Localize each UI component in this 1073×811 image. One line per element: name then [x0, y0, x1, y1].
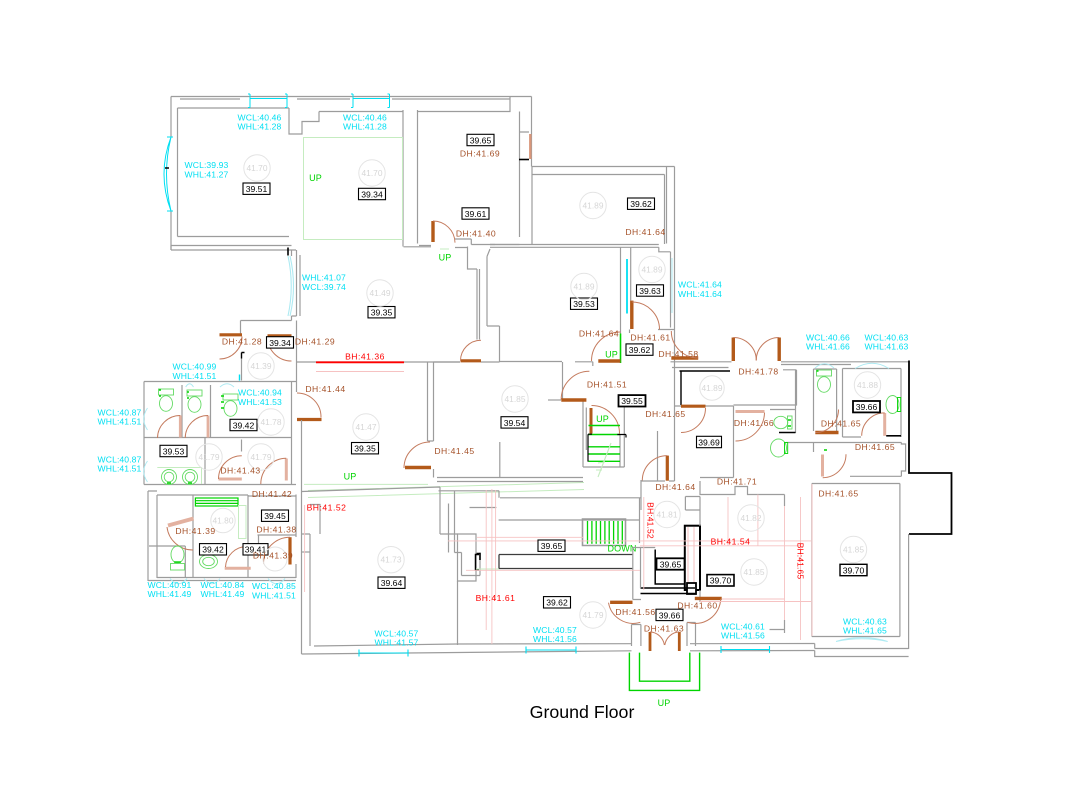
black tick below window 39.65 — [519, 159, 529, 161]
toilet WC1 — [159, 389, 174, 411]
wall room 39.70r — [812, 484, 900, 637]
circle 41.82 — [738, 505, 764, 531]
wall bottom inner — [314, 644, 815, 647]
wall room 39.62 top inner — [532, 174, 665, 176]
room box 39.35 top — [368, 307, 395, 318]
window arcs below 41.80 block — [170, 579, 285, 584]
svg-text:39.42: 39.42 — [233, 420, 255, 430]
stair down tread 6 — [608, 521, 610, 544]
black bracket duct — [476, 555, 480, 571]
door arc DH:41.39 upper — [167, 527, 193, 550]
door leaf DH:41.42 — [285, 459, 288, 481]
black double lines lobby — [641, 588, 696, 594]
room box 39.70 mid — [707, 575, 734, 586]
door arc DH:41.78 left — [733, 338, 756, 361]
room box 39.62 top — [628, 198, 655, 209]
svg-text:UP: UP — [344, 472, 357, 482]
circle 41.89 a — [580, 192, 606, 218]
stair down tread 8 — [617, 521, 619, 544]
svg-text:39.55: 39.55 — [621, 396, 643, 406]
wall room 41.88 — [843, 369, 902, 438]
wall 39.64 step y552 — [302, 551, 311, 553]
toilet WC2 — [187, 390, 202, 412]
door leaf DH:41.66 pink — [736, 410, 765, 413]
toilet DH41.66 room — [774, 416, 792, 429]
svg-text:41.85: 41.85 — [744, 567, 765, 577]
sink left 2 — [183, 470, 198, 485]
wall left of 39.69 — [657, 431, 659, 481]
landing walls below 39.53 — [575, 362, 593, 366]
door arc DH:41.45 — [404, 442, 430, 468]
circle 41.49 — [367, 280, 393, 306]
wall 39.64 left outer — [301, 420, 303, 654]
svg-text:DH:41.40: DH:41.40 — [456, 229, 496, 239]
wall room 39.62 right inner — [664, 175, 666, 245]
window arc 41.88 topright — [855, 363, 889, 368]
wall 39.35upper right jog right face — [487, 249, 500, 362]
svg-text:41.70: 41.70 — [362, 168, 383, 178]
svg-text:WHL:41.51: WHL:41.51 — [252, 590, 296, 600]
wall x700 pieces — [699, 510, 701, 602]
svg-text:41.89: 41.89 — [583, 201, 604, 211]
svg-text:DH:41.69: DH:41.69 — [460, 149, 500, 159]
wall stub 39.42 lower — [241, 440, 243, 452]
pink line h y546 — [640, 545, 800, 547]
room box 39.62 mid — [626, 344, 653, 355]
black bars reception — [499, 555, 633, 569]
svg-text:WHL:41.56: WHL:41.56 — [721, 631, 765, 641]
svg-text:WHL:41.51: WHL:41.51 — [98, 417, 142, 427]
room box 39.34 low — [267, 337, 294, 348]
wall stair left double — [583, 400, 586, 468]
window swash WC top 2 — [220, 384, 234, 387]
black L lobby — [655, 550, 685, 585]
door leaf DH:41.58 — [671, 356, 698, 359]
toilet 39.42 upper — [223, 394, 238, 416]
lobby gray walls — [633, 548, 655, 600]
svg-text:BH:41.36: BH:41.36 — [345, 352, 385, 362]
svg-text:39.69: 39.69 — [698, 437, 720, 447]
door leaf DH:41.40 — [431, 221, 434, 242]
window swash WC top 1 — [186, 384, 194, 387]
door arc stair UP DH:41.51 — [592, 406, 620, 434]
circle 41.88 — [854, 372, 880, 398]
wall landing to stair — [548, 399, 561, 401]
green tick UP door — [440, 248, 449, 250]
wall top right block face — [672, 365, 851, 368]
door leaf DH:41.65 hall — [681, 405, 706, 408]
pink line v x486 — [485, 490, 487, 630]
cyan tick 41.39 — [239, 375, 241, 381]
svg-text:DH:41.71: DH:41.71 — [717, 477, 757, 487]
wall jogs top 39.63 — [631, 247, 671, 252]
elevator shaft black — [685, 526, 700, 590]
wall DH41.71 zigzag — [700, 481, 785, 495]
svg-text:41.79: 41.79 — [583, 610, 604, 620]
wall room 39.65 right inner — [519, 112, 529, 238]
wall room 39.51 left inner — [177, 108, 179, 237]
door leaf 39.63 — [630, 301, 633, 329]
wall room 39.63 left — [630, 251, 632, 301]
svg-text:WHL:41.56: WHL:41.56 — [533, 634, 577, 644]
svg-text:WHL:41.28: WHL:41.28 — [238, 122, 282, 132]
shaft pink pair — [688, 527, 694, 589]
svg-text:UP: UP — [309, 173, 322, 183]
door leaf WC2 — [207, 416, 210, 438]
svg-text:DH:41.38: DH:41.38 — [256, 525, 296, 535]
stair down tread 5 — [604, 521, 606, 544]
door leaf DH:41.78 right — [778, 338, 781, 362]
counter green — [195, 498, 238, 506]
door arc DH:41.38 — [264, 537, 291, 563]
svg-text:DH:41.45: DH:41.45 — [434, 446, 474, 456]
svg-text:DH:41.64: DH:41.64 — [655, 482, 695, 492]
wall outer black right — [909, 361, 952, 535]
door leaf DH:41.64 39.69 — [666, 456, 669, 481]
shelf light green — [239, 506, 247, 539]
room box 39.53 left — [160, 445, 187, 456]
wall toilet partition y409 — [770, 409, 796, 411]
black seg under 41.88 door — [886, 435, 901, 437]
pink line x728 — [727, 497, 729, 546]
door arc DH:41.51 swing — [561, 371, 589, 399]
door arc corridor DH:41.65 — [823, 454, 846, 477]
corridor x641 vertical — [640, 480, 642, 510]
room box 39.45 — [262, 510, 289, 521]
svg-text:39.62: 39.62 — [546, 598, 568, 608]
wall stub mid 39.54 — [499, 442, 501, 478]
svg-text:WHL:41.64: WHL:41.64 — [678, 289, 722, 299]
door arc DH:41.65 hall — [681, 408, 706, 433]
corridor wall a — [439, 491, 642, 543]
floor edge 39.34 green — [304, 138, 403, 240]
sink left 1 — [162, 470, 177, 485]
wall room 39.53 right — [620, 247, 622, 333]
wall 39.35 top — [297, 361, 500, 363]
BH:41.36 pink face line — [316, 371, 404, 373]
svg-text:39.70: 39.70 — [710, 576, 732, 586]
stair down tread 9 — [621, 521, 623, 544]
sink counter light green — [157, 468, 202, 485]
window tick top wall 1 — [248, 94, 250, 108]
room box 39.62 low — [544, 597, 571, 608]
svg-text:DH:41.43: DH:41.43 — [220, 466, 260, 476]
stair arrow up — [596, 443, 611, 477]
window room 39.63 right light — [671, 258, 673, 313]
door leaf DH:41.64 low — [598, 359, 620, 362]
svg-text:39.45: 39.45 — [264, 511, 286, 521]
entry door leaf right — [678, 632, 681, 651]
circle 41.89 b — [639, 256, 665, 282]
door leaf DH:41.44 — [297, 418, 322, 421]
svg-text:39.66: 39.66 — [856, 402, 878, 412]
svg-text:41.78: 41.78 — [261, 417, 282, 427]
floor green line corridor low — [476, 568, 499, 570]
door leaf DH:41.65 WC — [815, 431, 838, 434]
black square shaft bottom — [687, 583, 696, 594]
stair down tread 2 — [591, 521, 593, 544]
wall 39.69 black corner — [680, 371, 731, 405]
svg-text:DH:41.78: DH:41.78 — [738, 367, 778, 377]
wall room 39.65 bottom — [419, 239, 520, 246]
svg-text:DH:41.66: DH:41.66 — [734, 418, 774, 428]
svg-text:DH:41.64: DH:41.64 — [625, 227, 665, 237]
svg-text:DH:41.29: DH:41.29 — [295, 337, 335, 347]
stair down tread 3 — [595, 521, 597, 544]
black seg y432 — [779, 432, 796, 434]
door arc DH:41.43 — [219, 456, 242, 479]
door leaf stair UP — [590, 408, 593, 434]
vestibule walls — [632, 623, 696, 647]
39.45 zone walls — [248, 495, 296, 547]
sink oval 41.80 — [200, 555, 218, 569]
stair rail black right — [617, 435, 626, 438]
room box 39.53 mid — [571, 298, 598, 309]
svg-text:WHL:41.51: WHL:41.51 — [173, 371, 217, 381]
wall room 39.65 left — [417, 110, 419, 244]
wall right corridor double — [667, 167, 675, 407]
wall room 39.53 top — [490, 245, 659, 248]
wall y320 jog — [241, 316, 297, 321]
wall 41.82 right — [770, 495, 785, 634]
wall outer top — [171, 96, 532, 98]
door leaf DH:41.28 — [220, 333, 243, 336]
room box 39.55 — [619, 395, 646, 406]
svg-text:41.89: 41.89 — [702, 383, 723, 393]
svg-text:DH:41.28: DH:41.28 — [222, 337, 262, 347]
svg-text:WHL:41.51: WHL:41.51 — [98, 464, 142, 474]
window tick top wall 3 — [351, 94, 353, 108]
wall right of DH41.78 room — [795, 370, 797, 433]
circle 41.79 b — [248, 444, 274, 470]
door leaf 39.42 lower — [225, 567, 251, 570]
door arc DH:41.58 — [671, 331, 698, 358]
svg-text:WHL:41.63: WHL:41.63 — [865, 342, 909, 352]
room box 39.63 — [637, 285, 664, 296]
svg-text:DH:41.58: DH:41.58 — [658, 349, 698, 359]
pink line h y541 — [448, 540, 811, 542]
door leaf DH:41.45 — [405, 466, 431, 469]
41.80 partition — [149, 495, 248, 578]
door leaf DH:41.56 — [610, 601, 632, 604]
corridor pillar — [455, 553, 481, 576]
window glass line top mid — [353, 98, 390, 100]
door arc DH:41.64 39.69 — [642, 456, 667, 481]
svg-text:UP: UP — [439, 253, 452, 263]
svg-text:39.62: 39.62 — [629, 345, 651, 355]
room box 39.42 low — [200, 544, 227, 555]
svg-text:BH:41.52: BH:41.52 — [646, 502, 656, 539]
svg-text:WHL:41.28: WHL:41.28 — [343, 122, 387, 132]
svg-text:WHL:41.66: WHL:41.66 — [806, 342, 850, 352]
svg-text:WCL:39.74: WCL:39.74 — [302, 282, 346, 292]
window arc left low 2 — [144, 461, 148, 482]
svg-text:WHL:41.65: WHL:41.65 — [843, 626, 887, 636]
door leaf DH:41.29 — [268, 334, 292, 337]
wall top right block — [671, 361, 910, 363]
svg-text:39.34: 39.34 — [361, 189, 383, 199]
door leaf 41.88 pink — [883, 413, 886, 436]
svg-text:BH:41.61: BH:41.61 — [476, 593, 516, 603]
room box 39.35 low — [352, 443, 379, 454]
green dots right block — [788, 371, 827, 450]
wall 39.64 top slope — [302, 487, 458, 534]
WC block right — [291, 382, 293, 485]
circle 41.78 — [258, 409, 284, 435]
wall landing left — [562, 362, 564, 400]
wall 39.64 right — [457, 581, 459, 645]
room box 39.65 top — [467, 134, 494, 145]
circle 41.39 — [248, 353, 274, 379]
wall x241 area 41.39 — [241, 359, 243, 381]
wall band below 39.65 — [404, 246, 468, 249]
svg-text:41.89: 41.89 — [574, 282, 595, 292]
circle 41.70 b — [359, 160, 385, 186]
wall window left of 39.35 — [292, 250, 301, 321]
door leaf DH:41.39 upper hatched — [168, 519, 194, 526]
svg-text:39.34: 39.34 — [269, 338, 291, 348]
pink line v x644 — [643, 497, 645, 590]
svg-text:39.65: 39.65 — [660, 559, 682, 569]
black tick pillar — [476, 554, 480, 561]
wall corridor right y442 — [786, 443, 905, 477]
toilet WC topright — [817, 370, 832, 392]
circle 41.73 — [378, 547, 404, 573]
porch inner green — [640, 653, 690, 682]
circle 41.79 a — [196, 444, 222, 470]
pink line v x800 — [800, 497, 802, 640]
stair down tread 7 — [613, 521, 615, 544]
circle 41.81 — [654, 501, 680, 527]
wall below DH:41.45 — [433, 469, 435, 478]
stair down tread 1 — [587, 521, 589, 544]
door arc DH:41.44 — [297, 393, 321, 418]
svg-text:41.85: 41.85 — [505, 394, 526, 404]
stair rail black left — [588, 434, 592, 461]
svg-text:39.53: 39.53 — [573, 299, 595, 309]
WC partitions — [144, 385, 292, 485]
svg-text:UP: UP — [596, 414, 609, 424]
wall 39.35upper right jog left face — [468, 247, 480, 340]
black tick top window wall — [287, 248, 289, 256]
svg-text:UP: UP — [605, 350, 618, 360]
sink taps left — [167, 482, 192, 484]
wall x296 corridor right — [296, 321, 298, 393]
door leaf DH:41.60 — [695, 597, 722, 600]
wall 39.69 bottom — [641, 406, 675, 481]
svg-text:WHL:41.27: WHL:41.27 — [185, 169, 229, 179]
window arc WC topright — [815, 364, 834, 368]
wall room 39.63 right — [670, 252, 672, 328]
room box 39.51 — [243, 183, 270, 194]
svg-text:41.82: 41.82 — [741, 513, 762, 523]
svg-text:WHL:41.49: WHL:41.49 — [148, 589, 192, 599]
wall 39.35 right double — [428, 362, 434, 441]
floor edge 39.35 green — [304, 483, 584, 498]
wall room 39.51 right + notch — [289, 108, 319, 134]
window room 39.53-39.63 cyan — [626, 259, 628, 314]
wall 39.54 bottom double — [437, 478, 583, 482]
wall room 39.62 top outer — [532, 166, 675, 168]
circle 41.47 — [353, 414, 379, 440]
wall y406 segments — [675, 405, 734, 407]
svg-text:39.65: 39.65 — [541, 541, 563, 551]
window bottom 39.64 — [359, 650, 408, 657]
stair down tread 4 — [600, 521, 602, 544]
door arc DH:41.64 low — [592, 332, 621, 361]
svg-text:BH:41.52: BH:41.52 — [307, 503, 347, 513]
pink line v x305 — [304, 505, 306, 592]
wall room 39.53 bottom — [500, 361, 563, 363]
door leaf 39.54 top — [461, 359, 482, 362]
wall room 39.63 bottom — [658, 329, 675, 331]
door leaf WC1 — [179, 416, 182, 438]
svg-text:DH:41.39: DH:41.39 — [253, 551, 293, 561]
svg-text:41.89: 41.89 — [642, 265, 663, 275]
door arc 39.54 top — [461, 340, 482, 361]
entry door arc left — [650, 632, 664, 645]
room box 39.70 right — [840, 564, 867, 575]
svg-text:BH:41.54: BH:41.54 — [711, 536, 751, 546]
wall room 39.62 left — [531, 167, 533, 245]
svg-text:41.39: 41.39 — [251, 361, 272, 371]
svg-text:WHL:41.49: WHL:41.49 — [201, 589, 245, 599]
svg-text:DH:41.61: DH:41.61 — [630, 333, 670, 343]
wall room 39.51 bottom inner — [178, 236, 290, 238]
door arc WC1 — [158, 416, 181, 439]
svg-text:41.81: 41.81 — [657, 510, 678, 520]
duct rect — [458, 534, 477, 581]
svg-text:DH:41.64: DH:41.64 — [579, 329, 619, 339]
svg-text:UP: UP — [658, 698, 671, 708]
svg-text:WHL:41.53: WHL:41.53 — [238, 397, 282, 407]
room box 39.66 right — [853, 401, 880, 412]
wall y477 segment — [700, 477, 734, 479]
pink line v x812 — [811, 484, 813, 636]
wall room 39.51 top inner — [178, 107, 290, 109]
stair tread 5 — [589, 460, 621, 462]
svg-text:WHL:41.57: WHL:41.57 — [375, 638, 419, 648]
svg-text:39.53: 39.53 — [163, 446, 185, 456]
svg-text:39.54: 39.54 — [504, 418, 526, 428]
door arc DH:41.65 WC — [816, 410, 839, 433]
pink line y598 right of entrance — [722, 598, 785, 600]
window glass line top left — [250, 98, 287, 100]
svg-text:DH:41.56: DH:41.56 — [615, 607, 655, 617]
pink line v x496 — [495, 490, 497, 600]
svg-text:DH:41.42: DH:41.42 — [252, 489, 292, 499]
room box 39.65 lobby — [657, 558, 685, 569]
svg-text:DH:41.60: DH:41.60 — [677, 601, 717, 611]
corridor left verticals — [449, 491, 455, 553]
window bottom 41.85L — [721, 646, 770, 653]
bow window left arcs — [164, 137, 173, 211]
WC block outer — [144, 382, 296, 485]
circle 41.xx faint — [263, 547, 287, 571]
svg-text:DH:41.65: DH:41.65 — [645, 409, 685, 419]
door arc DH:41.40 — [433, 221, 455, 243]
circle 41.89 c — [571, 273, 597, 299]
room box 39.34 top — [359, 188, 386, 199]
wall room 39.53 left top — [490, 244, 495, 246]
toilet 41.80 lower — [171, 546, 185, 570]
svg-text:39.63: 39.63 — [639, 286, 661, 296]
pink line h y570 — [466, 569, 640, 571]
wall bottom outer — [302, 644, 909, 655]
wall outer right lower — [908, 534, 910, 649]
svg-text:41.70: 41.70 — [247, 163, 268, 173]
svg-text:41.47: 41.47 — [356, 422, 377, 432]
